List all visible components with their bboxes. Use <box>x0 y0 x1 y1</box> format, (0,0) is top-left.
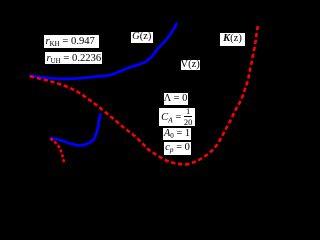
curves svg <box>0 0 273 175</box>
label cp = 0 <box>164 142 191 155</box>
curve red short plunge <box>51 139 65 164</box>
label CA = 1/20 <box>159 108 195 126</box>
label G(z) <box>131 32 153 43</box>
label K(z) <box>220 33 245 46</box>
label rKH = 0.947 <box>44 35 99 48</box>
label V(z) <box>181 60 200 70</box>
curve K(z) red dashed main <box>30 25 258 165</box>
label Lambda = 0 <box>164 93 188 105</box>
curve blue lower dip <box>51 114 101 145</box>
curve V(z)/G(z) blue upper <box>30 24 177 79</box>
label A0 = 1 <box>163 128 191 140</box>
label rUH = 0.2236 <box>45 52 102 64</box>
